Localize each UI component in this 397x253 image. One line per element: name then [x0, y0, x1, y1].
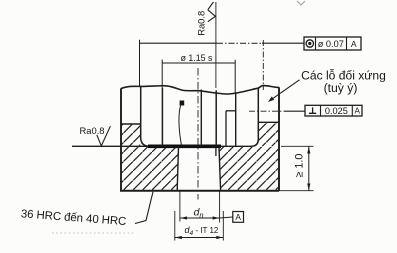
hatch body left of hole — [122, 147, 179, 190]
dn dimension line — [180, 217, 220, 219]
dia 1.15s dimension line — [162, 62, 235, 64]
svg-text:d4 - IT 12: d4 - IT 12 — [185, 225, 219, 237]
Ra extension line to top — [215, 2, 217, 88]
svg-text:A: A — [351, 39, 357, 49]
cavity floor line with Ra extension to the left — [72, 145, 251, 147]
dn dimension extensions — [179, 191, 181, 222]
die top surface left rim — [121, 123, 141, 125]
svg-text:ø 0.07: ø 0.07 — [318, 39, 344, 49]
right edge of die and upper piece — [278, 87, 280, 190]
die hole right wall — [219, 147, 221, 191]
punch bottom thick contact line — [148, 145, 221, 149]
left edge of die and upper piece — [120, 88, 122, 190]
wall thickness dimension (>=1.0) — [281, 145, 314, 147]
leader to symmetric holes text — [270, 80, 300, 101]
right hole centerline vertical — [262, 40, 264, 90]
die bottom edge — [120, 190, 279, 192]
wavy break line (top edge of upper piece) — [121, 86, 279, 94]
svg-text:A: A — [354, 107, 360, 116]
svg-text:≥ 1.0: ≥ 1.0 — [293, 154, 305, 178]
punch edge stub below floor — [215, 148, 217, 156]
perpendicularity symbol — [309, 107, 316, 113]
svg-text:0.025: 0.025 — [325, 106, 348, 116]
hatch body right of hole — [219, 147, 278, 190]
die bottom extension line right — [279, 190, 314, 192]
inner step vertical right / dim extension — [235, 93, 237, 146]
Ra symbol top (rotated, tip right) — [208, 2, 216, 22]
svg-text:Ra0.8: Ra0.8 — [80, 125, 105, 136]
center hole right wall — [200, 90, 202, 146]
inner step top edge — [226, 110, 236, 112]
svg-text:A: A — [235, 212, 241, 222]
datum A box — [233, 212, 244, 223]
cavity left wall with fillet — [141, 86, 150, 147]
svg-text:Ra0.8: Ra0.8 — [195, 11, 206, 36]
punch left extension line — [161, 60, 163, 88]
hatch right rim — [259, 123, 279, 146]
d4 dimension extensions — [174, 211, 176, 241]
svg-text:ø 1.15 s: ø 1.15 s — [181, 53, 213, 63]
punch step edge — [215, 90, 217, 146]
Ra symbol left — [97, 126, 111, 146]
cavity right wall with fillet — [251, 88, 258, 146]
inner step vertical left — [225, 111, 227, 147]
fillet leader mark — [180, 101, 185, 106]
d4 dimension line — [175, 237, 224, 239]
hatch left rim — [122, 125, 141, 147]
scan noise dotted line — [52, 232, 136, 234]
concentricity symbol — [306, 40, 313, 47]
cut-off mark at top edge — [297, 1, 305, 5]
right hole bottom / die top right rim — [258, 121, 279, 123]
top dimension line to frame — [140, 42, 218, 44]
datum A stem — [220, 217, 233, 218]
svg-text:dn: dn — [194, 208, 204, 220]
punch left edge — [161, 88, 163, 146]
top dimension left extension — [139, 40, 141, 86]
concentricity feature control frame — [304, 37, 361, 50]
perpendicularity feature control frame — [305, 105, 362, 116]
main centerline — [197, 68, 199, 200]
hole centerline to perpendicularity frame — [249, 110, 284, 112]
hardness leader — [135, 192, 153, 224]
dim extension above — [234, 60, 236, 93]
svg-text:36 HRC đến 40 HRC: 36 HRC đến 40 HRC — [20, 208, 126, 228]
die hole left wall — [177, 147, 178, 191]
svg-text:(tuỳ ý): (tuỳ ý) — [324, 81, 358, 95]
